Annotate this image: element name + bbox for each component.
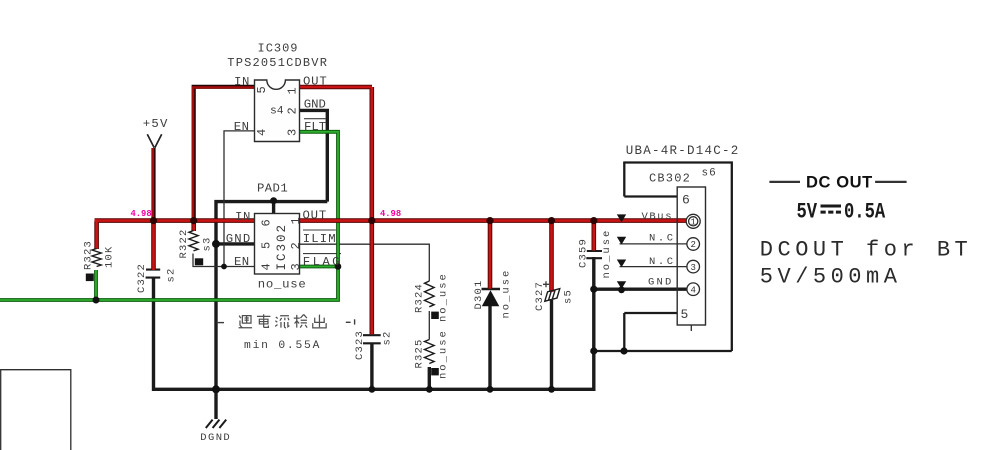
svg-text:OUT: OUT: [303, 209, 328, 223]
svg-text:5V: 5V: [797, 200, 818, 225]
svg-text:C322: C322: [136, 263, 148, 293]
svg-text:4.98: 4.98: [131, 209, 152, 219]
svg-text:C327: C327: [534, 281, 546, 311]
svg-text:CB302: CB302: [649, 172, 691, 186]
svg-text:DCOUT for BT: DCOUT for BT: [760, 238, 972, 263]
svg-text:FLT: FLT: [304, 120, 326, 134]
svg-text:5: 5: [681, 307, 689, 322]
svg-text:no_use: no_use: [438, 329, 450, 379]
svg-text:no_use: no_use: [438, 272, 450, 322]
svg-text:2: 2: [286, 106, 300, 114]
svg-text:1: 1: [690, 218, 695, 228]
svg-text:IC302: IC302: [275, 223, 289, 271]
svg-text:DC OUT: DC OUT: [806, 174, 873, 192]
svg-text:+5V: +5V: [143, 117, 169, 131]
svg-text:no_use: no_use: [601, 229, 613, 279]
svg-text:GND: GND: [226, 232, 252, 246]
svg-text:min 0.55A: min 0.55A: [244, 340, 321, 352]
svg-text:10K: 10K: [104, 245, 116, 268]
svg-text:IN: IN: [234, 75, 250, 89]
svg-text:3: 3: [289, 262, 303, 270]
svg-text:IC309: IC309: [258, 42, 299, 56]
svg-text:GND: GND: [304, 97, 326, 111]
svg-text:4: 4: [260, 262, 274, 270]
svg-text:OUT: OUT: [303, 74, 328, 88]
svg-text:3: 3: [286, 128, 300, 136]
svg-text:N.C: N.C: [649, 233, 676, 245]
svg-text:C359: C359: [578, 238, 590, 268]
svg-text:DGND: DGND: [200, 432, 231, 444]
svg-text:N.C: N.C: [649, 256, 676, 268]
svg-text:IN: IN: [235, 210, 251, 224]
svg-text:no_use: no_use: [258, 277, 307, 291]
svg-text:R323: R323: [83, 240, 95, 270]
svg-text:EN: EN: [234, 120, 250, 134]
svg-text:D301: D301: [473, 279, 485, 309]
svg-text:R322: R322: [178, 228, 190, 258]
svg-text:UBA-4R-D14C-2: UBA-4R-D14C-2: [626, 144, 740, 158]
svg-text:1: 1: [286, 86, 300, 94]
svg-text:FLAG: FLAG: [303, 255, 342, 269]
svg-text:6: 6: [260, 218, 274, 226]
svg-text:PAD1: PAD1: [257, 182, 288, 196]
svg-text:4: 4: [255, 128, 269, 136]
svg-text:1: 1: [289, 216, 303, 224]
svg-text:5: 5: [260, 241, 274, 249]
svg-text:no_use: no_use: [501, 269, 513, 319]
svg-text:R325: R325: [414, 338, 426, 368]
svg-text:0.5A: 0.5A: [844, 200, 885, 225]
svg-text:R324: R324: [414, 283, 426, 313]
svg-text:VBus: VBus: [642, 211, 674, 223]
svg-text:ILIM: ILIM: [303, 232, 337, 246]
svg-text:s4: s4: [270, 106, 284, 118]
svg-text:5: 5: [255, 85, 269, 93]
svg-text:s2: s2: [166, 267, 178, 282]
svg-text:6: 6: [682, 193, 690, 208]
svg-text:GND: GND: [648, 277, 674, 289]
svg-text:s3: s3: [202, 236, 214, 251]
svg-text:4.98: 4.98: [380, 209, 401, 219]
svg-text:TPS2051CDBVR: TPS2051CDBVR: [227, 56, 328, 70]
svg-text:s5: s5: [563, 289, 575, 304]
svg-text:s2: s2: [382, 330, 394, 345]
svg-text:s6: s6: [702, 168, 717, 180]
svg-text:2: 2: [289, 241, 303, 249]
svg-text:5V/500mA: 5V/500mA: [760, 264, 902, 289]
svg-text:2: 2: [690, 240, 695, 250]
svg-text:EN: EN: [234, 255, 250, 269]
svg-text:3: 3: [690, 263, 695, 273]
svg-text:4: 4: [690, 285, 695, 295]
svg-text:C323: C323: [354, 330, 366, 360]
